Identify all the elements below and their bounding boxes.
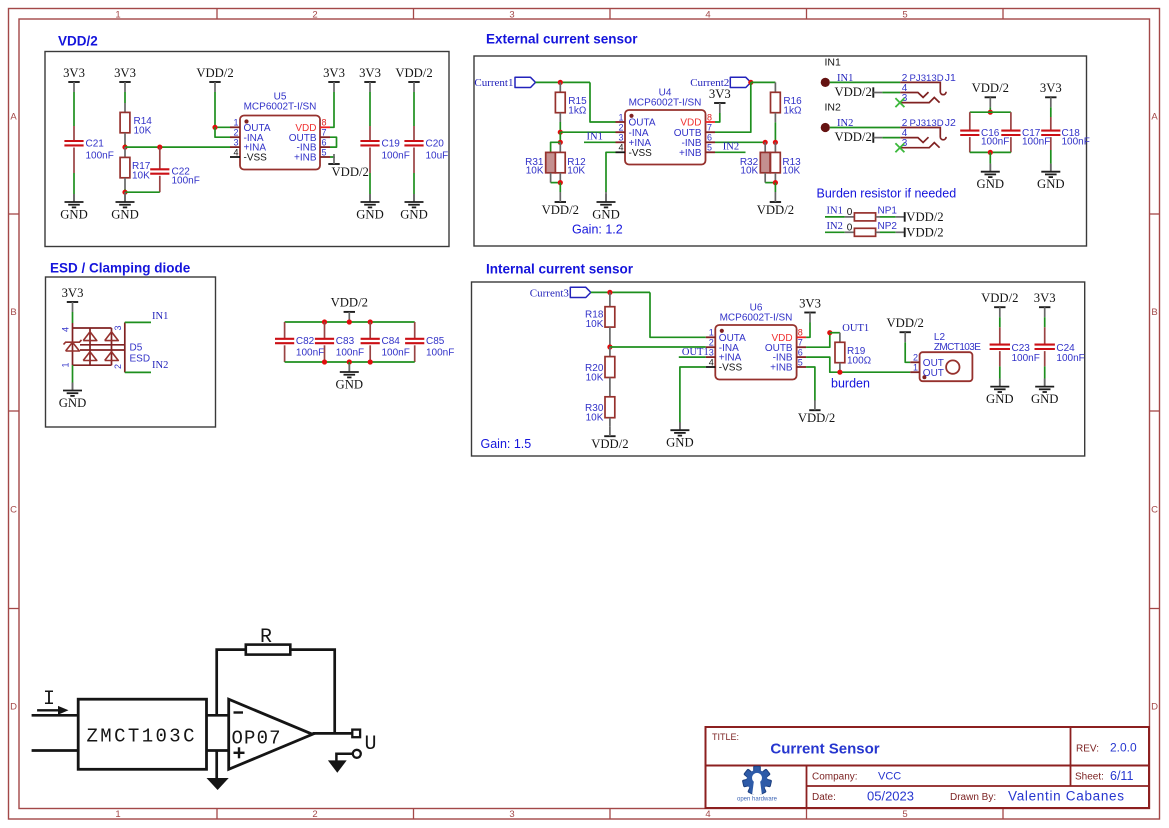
capacitor C24 100nF [1035, 317, 1085, 366]
svg-text:3: 3 [113, 325, 123, 330]
section box VDD/2 [45, 52, 449, 247]
wire bottom rail C82-C85 [285, 361, 415, 363]
junction -INB/divider2 left [763, 140, 768, 145]
svg-text:ESD: ESD [130, 353, 151, 364]
wire VDD/2 to top rail [348, 321, 350, 323]
svg-text:6/11: 6/11 [1110, 769, 1133, 783]
wire -INB pin6 [715, 141, 765, 143]
svg-text:3V3: 3V3 [63, 66, 85, 80]
svg-text:ZMCT103E: ZMCT103E [934, 342, 981, 353]
svg-text:4: 4 [705, 809, 710, 820]
svg-text:GND: GND [592, 208, 620, 222]
svg-text:VDD/2: VDD/2 [331, 296, 368, 310]
svg-text:1: 1 [709, 328, 714, 338]
svg-text:100nF: 100nF [296, 348, 324, 359]
svg-text:100nF: 100nF [172, 175, 200, 186]
svg-text:GND: GND [111, 208, 139, 222]
resistor R31 10K (parallel left) [525, 142, 560, 182]
svg-text:2: 2 [312, 10, 317, 21]
svg-text:C: C [1151, 505, 1158, 516]
diode array D5 ESD [61, 322, 151, 372]
ground GND (R17) [124, 192, 126, 202]
svg-text:OUT1: OUT1 [842, 323, 869, 334]
power VDD/2 (J2 pin4) [834, 130, 882, 144]
svg-text:3: 3 [618, 133, 623, 143]
svg-text:100nF: 100nF [981, 137, 1009, 148]
svg-text:OP07: OP07 [232, 728, 281, 750]
figure input arrow [37, 706, 68, 715]
wire IN1 to connector pin2 [830, 81, 900, 83]
svg-text:4: 4 [705, 10, 710, 21]
testpoint dot IN1 [821, 78, 830, 87]
svg-text:5: 5 [798, 357, 803, 367]
svg-text:10K: 10K [586, 372, 604, 383]
svg-text:GND: GND [977, 177, 1005, 191]
svg-text:2: 2 [709, 338, 714, 348]
wire NP2 to VDD/2 [880, 231, 896, 233]
svg-text:8: 8 [322, 118, 327, 128]
svg-text:VDD/2: VDD/2 [972, 81, 1009, 95]
junction bottom C83 [322, 359, 327, 364]
wire NP1 to VDD/2 [880, 216, 896, 218]
connector J2 PJ313D [900, 117, 956, 149]
svg-text:D: D [1151, 702, 1158, 713]
hierarchical label Current2 [690, 77, 751, 89]
wire junction to divider [559, 132, 561, 142]
power 3V3 (U6 VDD) [799, 296, 821, 322]
svg-text:VDD/2: VDD/2 [58, 34, 98, 49]
hierarchical label Current3 [530, 287, 591, 299]
svg-text:5: 5 [322, 147, 327, 157]
svg-text:Current1: Current1 [474, 77, 513, 89]
svg-text:10K: 10K [567, 166, 585, 177]
capacitor C18 100nF [1041, 117, 1090, 150]
svg-text:GND: GND [356, 208, 384, 222]
capacitor C20 10uF [404, 126, 448, 173]
ground GND (U4) [605, 192, 607, 202]
wire divider2 to VDD/2 [774, 183, 776, 192]
svg-text:5: 5 [902, 809, 907, 820]
svg-text:8: 8 [798, 328, 803, 338]
svg-text:4: 4 [233, 147, 238, 157]
svg-text:7: 7 [322, 128, 327, 138]
svg-text:IN2: IN2 [827, 221, 843, 232]
ground GND (C19) [369, 194, 371, 202]
svg-text:IN1: IN1 [587, 131, 603, 142]
svg-text:1kΩ: 1kΩ [783, 106, 802, 117]
resistor R13 10K (parallel right) [771, 142, 802, 182]
wire +INB to VDD/2 [330, 157, 334, 158]
svg-text:VDD/2: VDD/2 [981, 291, 1018, 305]
ground GND (D5) [72, 383, 74, 391]
wire Current1 to OUTA pin1 [590, 82, 616, 122]
wire rail to GND [989, 152, 991, 163]
power 3V3 (C19) [359, 66, 381, 92]
op-amp U5 MCP6002T-I/SN [230, 92, 330, 170]
wire -INA pin2 U6 [610, 346, 706, 348]
resistor R32 10K (parallel left) [740, 142, 776, 182]
power 3V3 (C24) [1034, 291, 1056, 317]
svg-text:PJ313D: PJ313D [910, 73, 944, 84]
power VDD/2 (U5 output) [196, 66, 233, 92]
svg-text:IN1: IN1 [827, 206, 843, 217]
svg-text:PJ313D: PJ313D [910, 118, 944, 129]
hierarchical label Current1 [474, 77, 535, 89]
svg-text:1: 1 [233, 118, 238, 128]
svg-text:C84: C84 [382, 336, 401, 347]
svg-text:1: 1 [913, 363, 918, 373]
power VDD/2 (C82-C85) [331, 296, 368, 322]
svg-text:Company:: Company: [812, 772, 858, 783]
svg-text:100nF: 100nF [382, 150, 410, 161]
svg-text:10K: 10K [134, 126, 152, 137]
svg-text:ESD / Clamping diode: ESD / Clamping diode [50, 261, 191, 276]
capacitor C85 100nF [405, 322, 454, 362]
svg-text:1: 1 [115, 809, 120, 820]
svg-text:3V3: 3V3 [323, 66, 345, 80]
junction OUTA/-INA [212, 125, 217, 130]
svg-text:GND: GND [1037, 177, 1065, 191]
wire +INB pin5 IN2 [715, 151, 746, 153]
junction OUT1/R19 [827, 330, 832, 335]
svg-text:C85: C85 [426, 336, 445, 347]
wire IN2 to connector pin2 [830, 127, 900, 129]
wire VDD/2 to OUTA [215, 92, 230, 127]
svg-text:2: 2 [233, 128, 238, 138]
wire bottom rail C16/C17 [970, 151, 1011, 153]
wire 3V3 to D5 [72, 312, 74, 323]
wire Current2 to OUTB pin7 [715, 82, 751, 132]
wire VDD/2 to J2 pin4 [882, 137, 900, 139]
wire D5 to GND [72, 365, 74, 382]
wire 3V3 to C21 [73, 92, 75, 126]
no-connect X J1 pin3 [895, 98, 904, 107]
svg-text:3: 3 [709, 348, 714, 358]
figure ground arrow (op-amp +) [207, 751, 229, 791]
ground GND (C24) [1044, 379, 1046, 387]
resistor R12 10K (parallel right) [555, 142, 586, 182]
wire OUT1 to +INA pin3 [679, 356, 706, 358]
power VDD/2 (C23) [981, 291, 1018, 317]
ground GND (C23) [999, 379, 1001, 387]
junction Current2 [748, 80, 753, 85]
resistor R19 100ohm [835, 333, 872, 373]
ground GND (C18) [1050, 164, 1052, 172]
junction C16/C17 bottom [988, 150, 993, 155]
svg-text:7: 7 [798, 338, 803, 348]
resistor R18 10K [585, 292, 615, 347]
svg-text:GND: GND [666, 436, 694, 450]
wire C23 to GND [999, 366, 1001, 378]
svg-text:1: 1 [618, 112, 623, 122]
ground GND (U6) [679, 423, 681, 431]
junction divider2 bottom [773, 180, 778, 185]
svg-text:05/2023: 05/2023 [867, 789, 914, 804]
power VDD/2 (R31/R12) [542, 192, 579, 217]
resistor R15 1k [555, 82, 587, 122]
svg-text:GND: GND [400, 208, 428, 222]
svg-text:Internal current sensor: Internal current sensor [486, 262, 634, 277]
svg-text:100nF: 100nF [1056, 353, 1084, 364]
svg-text:+INB: +INB [770, 363, 793, 374]
svg-text:Current2: Current2 [690, 77, 729, 89]
figure transformer box ZMCT103C [78, 699, 206, 769]
figure feedback resistor R [246, 645, 290, 655]
svg-text:VDD/2: VDD/2 [834, 85, 871, 99]
svg-text:I: I [43, 688, 55, 711]
resistor R14 10K [120, 103, 152, 144]
junction divider bottom [558, 180, 563, 185]
power VDD/2 (NP2) [896, 225, 944, 239]
junction top C84 [368, 319, 373, 324]
svg-text:0: 0 [847, 222, 853, 233]
power VDD/2 (R30) [591, 426, 628, 451]
svg-text:D: D [10, 702, 17, 713]
svg-text:MCP6002T-I/SN: MCP6002T-I/SN [720, 313, 793, 324]
current transformer L2 ZMCT103E [910, 332, 981, 381]
svg-text:IN2: IN2 [152, 360, 168, 371]
section box ESD [46, 277, 216, 427]
capacitor C19 100nF [360, 126, 409, 173]
wire divider mid to +INA U5 [125, 146, 230, 148]
power 3V3 (U5 VDD) [323, 66, 345, 92]
svg-text:3V3: 3V3 [359, 66, 381, 80]
svg-text:6: 6 [798, 348, 803, 358]
junction R14/R17/wire [122, 145, 127, 150]
svg-text:100nF: 100nF [1012, 353, 1040, 364]
junction bottom C84 [368, 359, 373, 364]
wire 3V3 to C19 [369, 92, 371, 126]
svg-text:IN1: IN1 [825, 56, 842, 68]
wire R17 bottom [124, 189, 126, 192]
wire OUTB to -INB feedback [330, 137, 337, 147]
svg-text:IN2: IN2 [825, 101, 842, 113]
wire D5 pin2 to IN2 [125, 371, 151, 373]
svg-text:2: 2 [312, 809, 317, 820]
svg-text:100nF: 100nF [1022, 137, 1050, 148]
wire -VSS U6 to GND [680, 367, 706, 423]
svg-text:VDD/2: VDD/2 [798, 411, 835, 425]
svg-text:100Ω: 100Ω [847, 356, 872, 367]
power VDD/2 (NP1) [896, 210, 944, 224]
wire top rail C16/C17 [970, 111, 1011, 113]
svg-text:C19: C19 [382, 138, 401, 149]
svg-text:3V3: 3V3 [1034, 291, 1056, 305]
wire C22 bottom to R17 bottom [125, 191, 160, 193]
svg-text:J2: J2 [945, 117, 956, 129]
wire top rail C82-C85 [285, 321, 415, 323]
svg-text:GND: GND [59, 396, 87, 410]
wire C21 to GND [73, 173, 75, 194]
testpoint dot IN2 [821, 123, 830, 132]
wire Current2 to R16 [751, 81, 776, 83]
svg-text:10K: 10K [586, 413, 604, 424]
junction R18/R20/-INA [607, 344, 612, 349]
svg-text:5: 5 [902, 10, 907, 21]
svg-text:U: U [365, 733, 377, 756]
wire C19 to GND [369, 173, 371, 194]
capacitor C21 100nF [64, 126, 113, 173]
svg-text:3V3: 3V3 [114, 66, 136, 80]
wire C20 to GND [413, 173, 415, 194]
svg-text:-VSS: -VSS [629, 148, 653, 159]
wire -VSS to GND [606, 152, 616, 192]
wire 3V3 to VDD pin8 U6 [806, 323, 810, 338]
ground GND (C16/C17) [989, 164, 991, 172]
power 3V3 (R14) [114, 66, 136, 92]
svg-text:3: 3 [233, 138, 238, 148]
junction top VDD/2 tap [347, 319, 352, 324]
svg-text:100nF: 100nF [336, 348, 364, 359]
wire divider to VDD/2 [559, 183, 561, 192]
figure input wires [32, 715, 79, 750]
svg-text:1: 1 [61, 362, 71, 367]
svg-text:C21: C21 [86, 138, 105, 149]
svg-text:4: 4 [709, 357, 714, 367]
power VDD/2 (U6 +INB) [798, 400, 835, 425]
svg-text:4: 4 [61, 327, 71, 332]
svg-text:10K: 10K [526, 166, 544, 177]
wire 3V3 to R14 [124, 92, 126, 103]
svg-text:GND: GND [336, 378, 364, 392]
svg-text:10K: 10K [782, 166, 800, 177]
resistor R17 10K [120, 147, 151, 189]
svg-text:100nF: 100nF [382, 348, 410, 359]
svg-text:External current sensor: External current sensor [486, 32, 638, 47]
svg-text:NP2: NP2 [878, 221, 898, 232]
power VDD/2 (C16/C17) [972, 81, 1009, 107]
svg-text:+INB: +INB [294, 153, 317, 164]
wire +INB to VDD/2 (U6) [806, 367, 815, 401]
figure wires box to op-amp [207, 715, 229, 750]
power 3V3 (C21) [63, 66, 85, 92]
junction bottom GND tap [347, 359, 352, 364]
junction Current1/R15 [558, 80, 563, 85]
svg-text:MCP6002T-I/SN: MCP6002T-I/SN [629, 98, 702, 109]
svg-text:NP1: NP1 [878, 206, 898, 217]
svg-text:MCP6002T-I/SN: MCP6002T-I/SN [244, 102, 317, 113]
wire OUTB to R19 top [806, 333, 830, 348]
figure op-amp OP07 triangle [229, 699, 313, 769]
svg-text:4: 4 [618, 143, 623, 153]
junction R16/divider2 right [773, 140, 778, 145]
wire VDD/2 to rail [989, 107, 991, 112]
ground GND (C21) [73, 194, 75, 202]
wire D5 pin3 to IN1 [125, 321, 151, 323]
figure lower terminal circle [353, 750, 361, 758]
svg-text:10K: 10K [132, 170, 150, 181]
svg-text:J1: J1 [945, 72, 956, 84]
wire 3V3 to VDD pin8 U4 [715, 113, 720, 122]
svg-text:100nF: 100nF [1062, 137, 1090, 148]
open hardware logo [742, 766, 771, 794]
svg-text:burden: burden [831, 376, 870, 390]
svg-text:3V3: 3V3 [62, 286, 84, 300]
svg-text:6: 6 [322, 138, 327, 148]
junction C22 tap [157, 145, 162, 150]
svg-text:D5: D5 [130, 343, 143, 354]
svg-text:VDD/2: VDD/2 [542, 203, 579, 217]
svg-text:open hardware: open hardware [737, 797, 778, 803]
power VDD/2 (U5 +INB) [328, 154, 369, 179]
junction R15/-INA [558, 130, 563, 135]
figure output terminal square [352, 730, 360, 738]
svg-text:VDD/2: VDD/2 [591, 437, 628, 451]
svg-text:REV:: REV: [1076, 744, 1099, 755]
section box Internal current sensor [472, 282, 1085, 456]
wire Current1 to R15/U4 [536, 81, 591, 83]
svg-text:GND: GND [1031, 392, 1059, 406]
svg-text:VDD/2: VDD/2 [906, 210, 943, 224]
svg-text:10K: 10K [740, 166, 758, 177]
wire 3V3 to VDD pin8 [330, 92, 334, 127]
svg-text:Sheet:: Sheet: [1075, 772, 1104, 783]
wire R14 to R17 [124, 144, 126, 147]
svg-text:+INB: +INB [679, 148, 702, 159]
resistor NP2 0 ohm [845, 221, 898, 236]
svg-text:100nF: 100nF [426, 348, 454, 359]
svg-text:GND: GND [60, 208, 88, 222]
svg-text:IN1: IN1 [152, 311, 168, 322]
svg-text:1kΩ: 1kΩ [568, 106, 587, 117]
capacitor C16 100nF [960, 112, 1009, 152]
svg-text:B: B [1151, 307, 1157, 318]
svg-text:TITLE:: TITLE: [712, 732, 739, 742]
capacitor C22 100nF [150, 147, 200, 192]
figure wire feedback top [217, 650, 335, 734]
svg-text:Current Sensor: Current Sensor [770, 741, 879, 758]
svg-text:B: B [10, 307, 16, 318]
svg-text:5: 5 [707, 143, 712, 153]
svg-text:3V3: 3V3 [1040, 81, 1062, 95]
svg-text:10K: 10K [586, 319, 604, 330]
capacitor C82 100nF [275, 322, 324, 362]
svg-text:OUT1: OUT1 [682, 347, 709, 358]
svg-text:VDD/2: VDD/2 [834, 130, 871, 144]
svg-text:2: 2 [618, 123, 623, 133]
svg-text:Drawn By:: Drawn By: [950, 792, 996, 803]
svg-text:GND: GND [986, 392, 1014, 406]
svg-text:2: 2 [913, 353, 918, 363]
svg-text:IN2: IN2 [723, 142, 739, 153]
svg-text:VDD/2: VDD/2 [395, 66, 432, 80]
svg-text:2: 2 [113, 364, 123, 369]
junction R17/C22 bottom [122, 190, 127, 195]
power VDD/2 (L2 pin2) [887, 316, 924, 342]
wire junction to R19 [830, 332, 840, 334]
svg-text:VCC: VCC [878, 771, 901, 783]
svg-text:100nF: 100nF [86, 150, 114, 161]
power VDD/2 (J1 pin4) [834, 85, 882, 99]
wire IN1 to +INA pin3 [584, 141, 616, 143]
wire rail to GND [348, 362, 350, 364]
svg-text:1: 1 [115, 10, 120, 21]
svg-text:10uF: 10uF [426, 150, 449, 161]
wire OUTA junction to -INA [215, 127, 230, 137]
section box External current sensor [474, 56, 1087, 246]
op-amp U6 MCP6002T-I/SN [706, 303, 806, 380]
svg-text:6: 6 [707, 133, 712, 143]
wire VDD/2 to J1 pin4 [882, 92, 900, 94]
op-amp U4 MCP6002T-I/SN [616, 88, 716, 165]
resistor R30 10K [585, 397, 615, 426]
wire Current3 [591, 291, 650, 293]
junction top C83 [322, 319, 327, 324]
resistor R20 10K [585, 347, 615, 397]
svg-text:Gain: 1.5: Gain: 1.5 [481, 437, 532, 451]
resistor R16 1k [771, 82, 803, 122]
power VDD/2 (C20) [395, 66, 432, 92]
